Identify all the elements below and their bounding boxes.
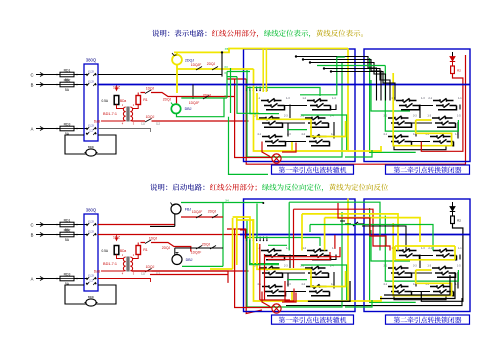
contact group box2 row3 right	[425, 133, 459, 146]
wire bottom crossover green	[345, 300, 372, 307]
wire black contact row to DBJ	[175, 243, 223, 250]
wire red branch box1 bottom	[262, 142, 296, 157]
wire bottom crossover green	[345, 150, 372, 157]
contact group box1 row1 left	[256, 247, 290, 260]
svg-text:R1: R1	[143, 248, 148, 252]
svg-text:DaB: DaB	[94, 120, 101, 124]
transformer BD1 secondary coil	[130, 107, 132, 121]
transformer BD1-7:1 core	[127, 257, 129, 272]
wire yellow drop x264	[263, 49, 266, 93]
contact group box2 row2 left	[383, 265, 417, 278]
wire green vertical pair	[230, 68, 232, 113]
contact group box2 row1 right	[428, 247, 462, 260]
svg-text:C: C	[30, 222, 33, 227]
switch machine box 2 frame	[364, 49, 470, 162]
fuse RD3 on phase A	[40, 122, 88, 136]
svg-text:1-1: 1-1	[458, 97, 462, 100]
wire box2 row links	[412, 255, 461, 292]
wire left drops yellow bottom	[233, 217, 253, 239]
svg-text:2DQJ: 2DQJ	[203, 94, 212, 98]
contact group box2 row2 left	[383, 115, 417, 128]
diode in box2	[450, 202, 455, 212]
label FBJ	[185, 208, 192, 212]
svg-text:A: A	[31, 276, 34, 281]
wire fuse to transformer	[117, 105, 125, 109]
svg-text:1-2: 1-2	[302, 247, 306, 250]
motor M in box1	[272, 154, 281, 163]
resistor R1	[136, 246, 148, 255]
wire bundle green 2 bottom	[310, 225, 433, 251]
svg-text:3-3: 3-3	[413, 265, 417, 268]
wire red feeder pair	[227, 78, 246, 80]
resistor R2 in box2	[451, 212, 462, 224]
wire red bus y121	[132, 270, 249, 272]
svg-text:1-4: 1-4	[332, 97, 336, 100]
svg-text:BDD: BDD	[88, 295, 94, 299]
wire green loop relay	[177, 72, 228, 117]
svg-text:1-3: 1-3	[421, 97, 425, 100]
svg-text:2DQJ: 2DQJ	[185, 58, 194, 62]
svg-text:B: B	[31, 82, 34, 87]
terminal strip in box1	[246, 87, 268, 92]
wire 1DZ drop arrow	[115, 235, 117, 241]
wire yellow mid bus 1DQJF/2DQJ	[177, 65, 254, 93]
wire phase A stub	[98, 129, 151, 133]
wire red rows box1 bottom	[264, 235, 340, 260]
blue bus line	[240, 234, 470, 236]
wire red bottom rows	[132, 271, 229, 283]
svg-text:X4: X4	[224, 94, 228, 98]
wire R1 bottom	[132, 105, 138, 109]
label BD1-7:1	[103, 103, 135, 126]
motor M in box1	[272, 304, 281, 313]
svg-text:1-6: 1-6	[455, 133, 459, 136]
svg-text:5A: 5A	[65, 88, 70, 92]
svg-text:1-5: 1-5	[457, 265, 461, 268]
svg-text:1-2: 1-2	[302, 97, 306, 100]
junction X5	[221, 47, 229, 54]
wire R1 top	[137, 243, 139, 246]
svg-text:2-1: 2-1	[428, 247, 432, 250]
svg-text:RD2: RD2	[64, 78, 71, 82]
svg-text:1DQJ: 1DQJ	[146, 115, 155, 119]
svg-text:3-3: 3-3	[413, 115, 417, 118]
svg-text:1-4: 1-4	[332, 247, 336, 250]
motor BDD	[85, 145, 98, 156]
caption line 1	[152, 30, 363, 38]
svg-text:2-3: 2-3	[284, 265, 288, 268]
contact group box1 row2 right	[300, 115, 334, 128]
label 1DQJF bottom	[191, 251, 201, 255]
svg-text:BDD: BDD	[88, 145, 94, 149]
wire red left drop into box1	[235, 79, 272, 158]
contact 1DQJ on red bus	[141, 115, 160, 126]
label 2DQJ	[185, 58, 194, 62]
wire green under box1	[229, 117, 269, 175]
motor BDD	[85, 295, 98, 306]
svg-text:380Q: 380Q	[86, 208, 97, 213]
contact group box1 row3 right	[301, 133, 335, 146]
label box 第一牵引点电液转辙机	[272, 165, 354, 174]
wire red staircase bottom	[338, 203, 386, 246]
label box 第一牵引点电液转辙机	[272, 315, 354, 324]
wire bundle red vertical	[294, 209, 391, 268]
svg-text:C: C	[30, 72, 33, 77]
resistor R1	[136, 96, 148, 105]
wire yellow nest box2	[393, 73, 451, 146]
wire black bracket row3 bottom	[308, 281, 350, 301]
switch machine box 1 frame	[244, 49, 356, 162]
wire R1 bottom	[132, 255, 138, 259]
svg-text:1DQJ: 1DQJ	[146, 87, 155, 91]
contact group box1 row1 left	[256, 97, 290, 110]
relay 2DQJ coil (yellow)	[172, 53, 182, 65]
wire bundle green vertical	[289, 202, 380, 250]
svg-text:1DQJ: 1DQJ	[149, 237, 158, 241]
wire box2 row links	[412, 105, 461, 142]
terminal B input	[31, 82, 48, 87]
wire black FBJ drop	[150, 214, 175, 226]
terminal strip in box1	[246, 237, 268, 242]
label BD1-7:1	[103, 253, 135, 276]
svg-text:5A: 5A	[65, 238, 70, 242]
wire bottom crossover yellow	[348, 146, 381, 151]
relay DBJ coil (green)	[171, 103, 181, 114]
contact group box2 row3 left	[383, 283, 417, 296]
svg-text:X5: X5	[225, 47, 229, 51]
svg-text:2-3: 2-3	[284, 115, 288, 118]
transformer BD1 primary coil	[123, 257, 125, 271]
transformer BD1 secondary coil	[130, 257, 132, 271]
wire fuse to transformer	[117, 255, 125, 259]
svg-text:0.5A: 0.5A	[101, 99, 108, 103]
wire box1 row links	[283, 105, 337, 142]
wire bundle yellow inner	[325, 218, 420, 251]
contact group box2 row3 left	[383, 133, 417, 146]
wire 1DZ drop arrow	[115, 85, 117, 91]
wire bottom crossover yellow	[348, 296, 381, 301]
svg-text:RD1: RD1	[64, 218, 71, 222]
contact 1DQJF on yellow	[191, 62, 218, 70]
wire box2 row3 bracket	[394, 146, 446, 150]
wire red bus y121	[132, 120, 249, 122]
wire green nest box2	[370, 58, 459, 152]
wire black return under box2	[286, 298, 462, 306]
wire staircase black 5	[330, 70, 395, 100]
fuse RD2 on phase B	[40, 228, 88, 242]
caption line 2	[150, 184, 388, 192]
contact 1DQJ on red bus	[141, 265, 160, 276]
svg-text:RD3: RD3	[64, 272, 71, 276]
wire black L x193	[192, 85, 194, 100]
svg-text:1 2: 1 2	[89, 279, 93, 283]
wire staircase black 3	[309, 61, 386, 100]
svg-text:I1 2I: I1 2I	[88, 230, 93, 234]
wire yellow nest box2	[393, 223, 451, 296]
label 1DZ	[113, 236, 121, 240]
svg-text:R2: R2	[457, 69, 461, 73]
svg-text:1DQJF: 1DQJF	[189, 101, 199, 105]
wire phase C (red)	[98, 224, 175, 226]
terminal block 380Q	[84, 58, 98, 142]
contact group box1 row3 right	[301, 283, 335, 296]
svg-text:1-3: 1-3	[427, 265, 431, 268]
svg-text:X3: X3	[224, 65, 228, 69]
svg-text:1-1: 1-1	[458, 247, 462, 250]
contact group box2 row1 left	[391, 97, 425, 110]
wire red loop under boxes	[246, 55, 465, 164]
contact group box1 row2 left	[254, 115, 288, 128]
wire green drop outside box1	[237, 77, 259, 114]
svg-text:BD1-7:1: BD1-7:1	[103, 112, 117, 116]
wire red row FBJ	[181, 209, 223, 218]
terminal B input	[31, 232, 48, 237]
wire red mid row bottom	[141, 237, 191, 252]
svg-text:380Q: 380Q	[86, 58, 97, 63]
svg-text:2DQJ: 2DQJ	[202, 243, 211, 247]
wire green nest box1	[246, 212, 347, 307]
svg-text:4-2: 4-2	[301, 283, 305, 286]
switch machine box 2 frame	[364, 199, 470, 312]
fuse RD1 on phase C	[40, 68, 88, 82]
svg-text:I1 2I: I1 2I	[88, 124, 93, 128]
contact group box1 row2 left	[254, 265, 288, 278]
wire red loop row3 bottom	[285, 281, 294, 301]
wire green row1 link bottom	[250, 240, 287, 265]
svg-text:DaB: DaB	[94, 270, 101, 274]
contact group box1 row2 right	[300, 265, 334, 278]
svg-text:112: 112	[156, 123, 160, 126]
svg-text:I1 2I: I1 2I	[88, 220, 93, 224]
wire right side of box2	[421, 74, 463, 152]
wire yellow top bus	[174, 49, 348, 55]
wire green nest box1	[246, 62, 347, 157]
svg-text:1-3: 1-3	[286, 97, 290, 100]
fuse RD1 on phase C	[40, 218, 88, 232]
svg-text:1-5: 1-5	[457, 115, 461, 118]
transformer BD1-7:1 core	[127, 107, 129, 122]
contact group box2 row1 left	[391, 247, 425, 260]
wire yellow loops bottom middle	[210, 218, 237, 269]
svg-text:FBJ: FBJ	[185, 208, 192, 212]
svg-text:1-6: 1-6	[455, 283, 459, 286]
wire yellow nest box1	[254, 49, 349, 152]
svg-text:2-1: 2-1	[428, 97, 432, 100]
svg-text:B: B	[31, 232, 34, 237]
wire staircase black 1	[295, 55, 377, 100]
svg-text:2DQJ: 2DQJ	[163, 98, 172, 102]
wire black drop x222	[222, 52, 228, 76]
wire green nest box2	[370, 208, 459, 302]
svg-text:1DQJF: 1DQJF	[191, 251, 201, 255]
svg-text:4-1: 4-1	[383, 133, 387, 136]
svg-text:I1 2I: I1 2I	[88, 274, 93, 278]
svg-text:BD1-7:1: BD1-7:1	[103, 262, 117, 266]
wire red left drop into box1	[235, 229, 272, 308]
relay DBJ coil bottom	[172, 248, 182, 265]
wire yellow nest box1	[254, 199, 349, 302]
label DBJ bottom	[186, 258, 193, 262]
wire phase A stub	[98, 279, 151, 283]
wire right side of box2	[421, 224, 463, 302]
svg-text:4-4: 4-4	[331, 133, 335, 136]
fuse BDa 0.5A	[101, 246, 126, 255]
svg-text:1DQJ: 1DQJ	[146, 265, 155, 269]
wire phase B (red)	[98, 234, 240, 236]
label DBJ	[185, 107, 192, 111]
svg-text:R1: R1	[143, 98, 148, 102]
blue bus line	[98, 84, 470, 86]
label DaB	[94, 270, 101, 274]
terminal C input	[30, 72, 47, 77]
wire red drop left	[246, 229, 262, 314]
contact group box1 row1 right	[302, 247, 336, 260]
wire box1 row links	[283, 255, 337, 292]
contact group box2 row3 right	[425, 283, 459, 296]
fuse RD3 on phase A	[40, 272, 88, 286]
terminal block 380Q	[84, 208, 98, 292]
terminal C input	[30, 222, 47, 227]
label X4	[224, 94, 228, 98]
wire box2 row3 bracket	[394, 296, 446, 300]
label X4 bottom	[225, 199, 229, 203]
wire red branch box1 bottom	[262, 292, 296, 307]
label box 第二牵引点转换锁闭器	[386, 315, 470, 324]
wire motor loop	[65, 135, 116, 154]
svg-text:0.5A: 0.5A	[101, 249, 108, 253]
svg-text:I1 2I: I1 2I	[88, 80, 93, 84]
contact 2DQJ on green	[189, 94, 212, 105]
wire bundle black bottom	[340, 221, 406, 251]
fuse BDa 0.5A	[101, 96, 126, 105]
contact group box2 row2 right	[427, 115, 461, 128]
terminal A input	[31, 126, 48, 131]
wire staircase green	[300, 57, 385, 95]
wire transformer out left	[101, 120, 125, 122]
contact group box1 row1 right	[302, 97, 336, 110]
resistor R2 in box2	[451, 62, 462, 74]
label box 第二牵引点转换锁闭器	[386, 165, 470, 174]
switch machine box 1 frame	[244, 199, 356, 312]
wire yellow loop row1 box2 bottom	[395, 246, 455, 260]
transformer BD1 primary coil	[123, 107, 125, 121]
contact group box1 row3 left	[257, 133, 291, 146]
wire green rows into box1	[227, 72, 250, 77]
wire red feeder pair	[227, 228, 246, 230]
label DaB	[94, 120, 101, 124]
wire staircase black 4	[323, 67, 390, 100]
svg-text:2DQJ: 2DQJ	[208, 209, 217, 213]
wire phase C to junction	[98, 74, 222, 76]
wire left drop green bottom	[256, 204, 258, 239]
svg-text:1DQJF: 1DQJF	[192, 210, 202, 214]
terminal A input	[31, 276, 48, 281]
wire red top row contacts	[141, 87, 235, 104]
svg-text:DBJ: DBJ	[185, 107, 192, 111]
svg-text:4-4: 4-4	[331, 283, 335, 286]
svg-text:RD3: RD3	[64, 122, 71, 126]
svg-text:R2: R2	[457, 219, 461, 223]
svg-text:BDa: BDa	[120, 99, 126, 103]
wire left drop red bottom	[240, 230, 245, 239]
wire red verticals box1 bottom	[260, 244, 290, 300]
wire black nest box2 bottom	[380, 272, 455, 299]
wire bundle yellow vertical	[302, 214, 398, 251]
contact group box1 row3 left	[257, 283, 291, 296]
svg-text:DBJ: DBJ	[186, 258, 193, 262]
fuse RD2 on phase B	[40, 78, 88, 92]
label 1DZ	[113, 86, 121, 90]
contact group box2 row2 right	[427, 265, 461, 278]
wire transformer out left	[101, 270, 125, 272]
svg-text:1-3: 1-3	[427, 115, 431, 118]
wire R1 top	[137, 93, 139, 96]
svg-text:2DQJ: 2DQJ	[162, 246, 171, 250]
relay FBJ coil	[171, 203, 182, 215]
diode in box2	[450, 52, 455, 62]
svg-text:4-2: 4-2	[301, 133, 305, 136]
svg-text:1-3: 1-3	[421, 247, 425, 250]
svg-text:1 2: 1 2	[89, 129, 93, 133]
contact group box2 row1 right	[428, 97, 462, 110]
contact pair upper box1 bottom	[345, 222, 364, 226]
svg-text:RD2: RD2	[64, 228, 71, 232]
svg-text:2DQJ: 2DQJ	[207, 62, 216, 66]
svg-text:1DQJF: 1DQJF	[191, 63, 201, 67]
svg-text:BDa: BDa	[120, 249, 126, 253]
svg-text:A: A	[31, 126, 34, 131]
wire motor loop	[65, 285, 116, 304]
svg-text:4-1: 4-1	[257, 133, 261, 136]
wire staircase black 2	[302, 58, 381, 100]
svg-text:I1 2I: I1 2I	[88, 70, 93, 74]
svg-text:RD1: RD1	[64, 68, 71, 72]
wire green top bottom-circuit	[181, 202, 264, 266]
svg-text:4-1: 4-1	[383, 283, 387, 286]
svg-text:X4: X4	[225, 199, 229, 203]
